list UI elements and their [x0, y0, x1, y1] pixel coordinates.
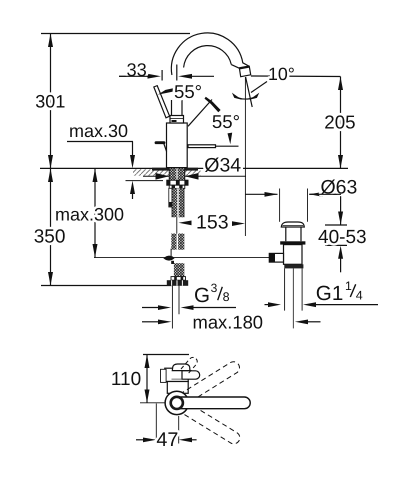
- 33 ext line right: [176, 65, 178, 81]
- drain plug dome: [281, 222, 304, 227]
- drain tailpipe: [285, 268, 303, 310]
- dimension 350 arrow down: [48, 272, 53, 286]
- dimension 301 arrow down: [48, 155, 53, 169]
- lever horizontal position: [188, 145, 216, 148]
- svg-text:47: 47: [156, 429, 178, 451]
- hose tail ext left: [171, 286, 173, 329]
- spout outer arc: [171, 33, 249, 75]
- 47 arrow left: [143, 438, 156, 443]
- svg-text:153: 153: [196, 212, 229, 234]
- max.180 dim line right: [307, 321, 321, 323]
- body left protrusion: [156, 141, 164, 144]
- dimension max.300 arrow down: [93, 244, 98, 258]
- plan lever hub: [171, 397, 183, 409]
- G3/8 dim line: [142, 307, 236, 309]
- 40-53 arrow up: [338, 246, 343, 259]
- dimension 110 line: [146, 355, 148, 403]
- dimension 205 line: [340, 77, 342, 169]
- svg-text:max.30: max.30: [69, 121, 128, 141]
- plan ring outer: [165, 391, 188, 414]
- 47 arrow right: [179, 438, 192, 443]
- hose hatch B: [174, 263, 184, 277]
- dimension max.300 line: [94, 169, 96, 258]
- drain centreline: [292, 268, 294, 328]
- svg-text:G1: G1: [316, 282, 343, 305]
- lever handle: [154, 86, 170, 118]
- 350 bottom reference line: [41, 285, 172, 287]
- hose connector: [171, 277, 186, 281]
- threaded shank in deck: [169, 168, 185, 181]
- G1 1/4 left tail: [265, 304, 270, 306]
- plan body logo smudge: [172, 378, 182, 380]
- 47 dim line left: [136, 439, 144, 441]
- svg-text:55°: 55°: [212, 111, 240, 132]
- dimension Ø63 right tail: [309, 193, 341, 195]
- plan body lower: [167, 382, 188, 394]
- 40-53 top ref line: [325, 224, 347, 226]
- drain neck: [283, 225, 304, 227]
- G1 1/4 underline tail: [316, 304, 379, 306]
- 47 dim line right: [191, 439, 197, 441]
- plan small left boss: [161, 369, 167, 382]
- pop-up rod upper: [176, 217, 178, 234]
- hose nuts: [167, 280, 188, 286]
- dimension Ø34 arrow left: [156, 173, 170, 180]
- svg-text:max.300: max.300: [55, 205, 124, 225]
- spout tip aerator: [239, 67, 250, 77]
- stream 10deg line: [246, 77, 253, 107]
- 10deg underline: [251, 75, 341, 78]
- dimension 350 line: [50, 169, 52, 286]
- spout inner arc: [184, 46, 232, 68]
- drain port cap: [269, 253, 275, 262]
- max.30 arrow down to deck: [130, 155, 135, 168]
- escutcheon base: [152, 168, 198, 171]
- max.30 max-thickness reference line: [126, 180, 164, 182]
- dimension 205 arrow down: [338, 155, 343, 168]
- pop-up rod lower: [170, 249, 172, 256]
- dimension 110 arrow up: [145, 355, 150, 369]
- deck hatch left: [133, 169, 169, 176]
- dimension Ø63 arrow left: [265, 192, 278, 197]
- svg-text:max.180: max.180: [193, 312, 264, 333]
- label G3/8: [194, 281, 230, 307]
- stream vertical reference line: [244, 77, 246, 236]
- faucet body: [167, 123, 188, 168]
- svg-text:3: 3: [211, 281, 218, 295]
- plan dashed raised lever: [181, 357, 197, 374]
- drain rod port: [269, 253, 283, 262]
- hose hatch A: [171, 234, 184, 250]
- max.180 arrow left: [158, 320, 172, 325]
- G1 1/4 arrow left: [268, 302, 281, 307]
- deck top line: [40, 167, 348, 169]
- lines redrawn above text halos: [119, 76, 341, 194]
- svg-text:350: 350: [34, 226, 66, 247]
- 10deg arc arrowhead right: [249, 93, 259, 100]
- 40-53 bottom ref line: [325, 244, 347, 246]
- max.180 arrow right: [295, 320, 308, 325]
- washer: [169, 185, 185, 188]
- hose tail ext right: [178, 286, 180, 315]
- rod clamp: [163, 256, 174, 261]
- dimension 110 arrow down: [145, 390, 150, 403]
- max.30 extension: [132, 142, 134, 157]
- G1 1/4 arrow right: [303, 302, 316, 307]
- svg-text:1: 1: [345, 279, 352, 293]
- plan top reference line: [143, 354, 189, 356]
- 55deg2 lower arrowhead: [228, 133, 233, 145]
- G3/8 arrow left: [158, 305, 171, 310]
- lever axis diagonal: [188, 100, 212, 127]
- 33 left arrow: [119, 75, 148, 77]
- deck bottom line: [143, 175, 246, 177]
- svg-text:G: G: [194, 284, 210, 307]
- svg-text:10°: 10°: [268, 64, 295, 84]
- spout tube wall connector: [231, 65, 239, 69]
- dimension 205 arrow up: [338, 77, 343, 90]
- svg-text:55°: 55°: [174, 81, 202, 102]
- 47 ext line right: [178, 416, 180, 444]
- drain flange: [280, 241, 305, 244]
- top reference line: [41, 33, 190, 35]
- drain ext line left: [279, 189, 281, 222]
- drain ext line right: [307, 189, 309, 222]
- dimension Ø63 arrow right: [309, 192, 322, 197]
- plan solid lever bar: [171, 397, 250, 409]
- 55deg2 upper arrowhead: [205, 97, 221, 112]
- 40-53 dim line upper: [340, 195, 342, 225]
- deck hatch right: [185, 169, 201, 176]
- svg-text:Ø34: Ø34: [204, 154, 241, 176]
- 10deg leader: [251, 82, 267, 93]
- threaded tube: [172, 188, 184, 217]
- locking nut: [167, 180, 188, 185]
- svg-text:205: 205: [324, 111, 355, 132]
- horizontal pop-up rod: [94, 257, 269, 259]
- spout riser tube: [172, 100, 183, 116]
- rod guide strip: [169, 188, 172, 207]
- 33 ext line left: [161, 70, 163, 81]
- max.180 dim line left: [142, 321, 158, 323]
- drain bottom rim: [284, 264, 303, 268]
- svg-text:301: 301: [35, 91, 65, 111]
- plan dashed lever up: [180, 359, 242, 446]
- G3/8 arrow right: [181, 305, 194, 310]
- plan body upper: [165, 368, 188, 381]
- 33 underline over halo: [119, 75, 148, 77]
- 47 ext line left: [155, 404, 157, 444]
- 33 right arrow: [178, 74, 192, 79]
- dimension 350 arrow up: [48, 169, 53, 183]
- 10deg arc arrowhead left: [232, 93, 242, 100]
- cap tick: [172, 120, 177, 122]
- 10deg arc: [234, 96, 257, 99]
- dimension Ø63 right tail over halo: [309, 193, 341, 195]
- svg-text:40-53: 40-53: [318, 227, 367, 248]
- svg-text:Ø63: Ø63: [321, 177, 358, 199]
- max.30 arrow up to deck bottom: [130, 181, 135, 194]
- plan cap: [172, 364, 190, 371]
- 153 arrow right: [232, 221, 245, 226]
- svg-text:8: 8: [223, 290, 230, 304]
- dimension 301 line: [50, 34, 52, 169]
- 55deg1 arc arrowhead left: [158, 88, 173, 94]
- svg-text:4: 4: [356, 288, 363, 302]
- 40-53 arrow down: [338, 212, 343, 225]
- cartridge cap: [170, 116, 184, 124]
- lever centreline ext: [140, 402, 165, 404]
- lever horizontal reference line: [216, 145, 239, 147]
- dimension 301 arrow up: [48, 34, 53, 48]
- dimension max.300 arrow up: [93, 169, 98, 182]
- drain body: [284, 245, 303, 265]
- 153 arrow left: [179, 221, 192, 226]
- max.30 underline: [67, 141, 133, 143]
- label G1 1/4: [316, 279, 363, 305]
- plan lever front stadium: [182, 371, 200, 379]
- dimension Ø34 arrow right: [185, 173, 199, 180]
- svg-text:110: 110: [111, 369, 141, 390]
- dimension Ø63 left tail: [245, 193, 277, 195]
